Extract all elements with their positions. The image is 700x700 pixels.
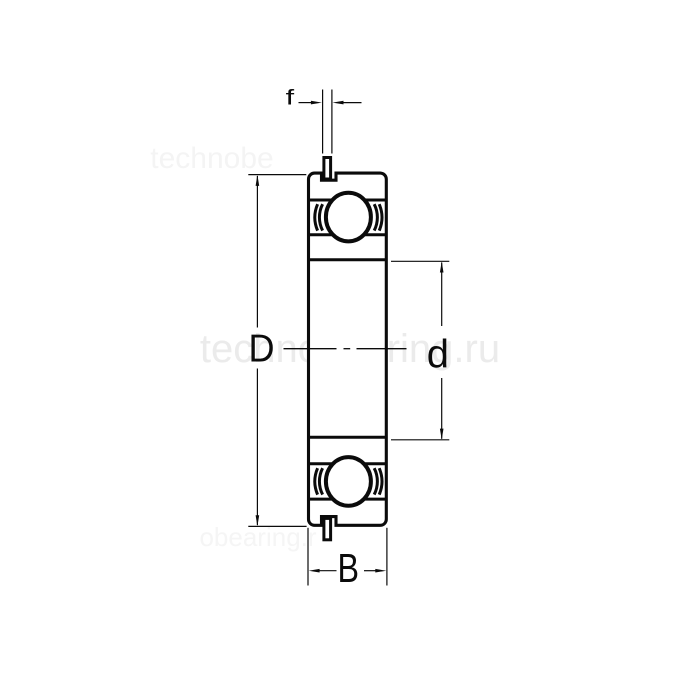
f arrow right <box>342 102 362 104</box>
ball top <box>326 193 371 242</box>
D extension line bottom <box>248 525 306 527</box>
svg-text:technobe: technobe <box>150 142 273 175</box>
center line (dash-dot) <box>284 348 337 350</box>
bore line top <box>310 258 386 261</box>
ring boundary line bottom outer <box>310 498 386 501</box>
f extension line left <box>322 90 324 154</box>
raceway arcs top-right <box>374 204 377 230</box>
snap ring bottom <box>324 518 331 539</box>
svg-text:f: f <box>286 86 295 109</box>
B dimension line + arrows <box>317 570 337 572</box>
snap ring top <box>324 158 331 180</box>
D dimension line <box>256 176 258 328</box>
f extension line right <box>331 90 333 154</box>
d dimension line <box>441 263 443 327</box>
ring boundary line top outer <box>310 199 386 202</box>
B extension line left <box>307 528 309 586</box>
f arrow left <box>299 102 314 104</box>
raceway arcs bottom-left <box>319 468 322 494</box>
ball bottom <box>326 457 371 506</box>
d extension line bottom <box>391 439 449 441</box>
ring boundary line top inner <box>310 233 386 236</box>
ring boundary line bottom inner <box>310 462 386 465</box>
svg-text:D: D <box>249 328 275 371</box>
d extension line top <box>391 260 449 262</box>
B extension line right <box>386 528 388 586</box>
bore line bottom <box>310 436 386 439</box>
outer+inner ring ring-section outline with snap-ring notches <box>309 173 387 525</box>
raceway arcs top-left <box>319 204 322 230</box>
raceway arcs bottom-right <box>374 468 377 494</box>
svg-text:B: B <box>338 545 360 591</box>
svg-text:d: d <box>427 333 449 377</box>
D extension line top <box>248 174 306 176</box>
